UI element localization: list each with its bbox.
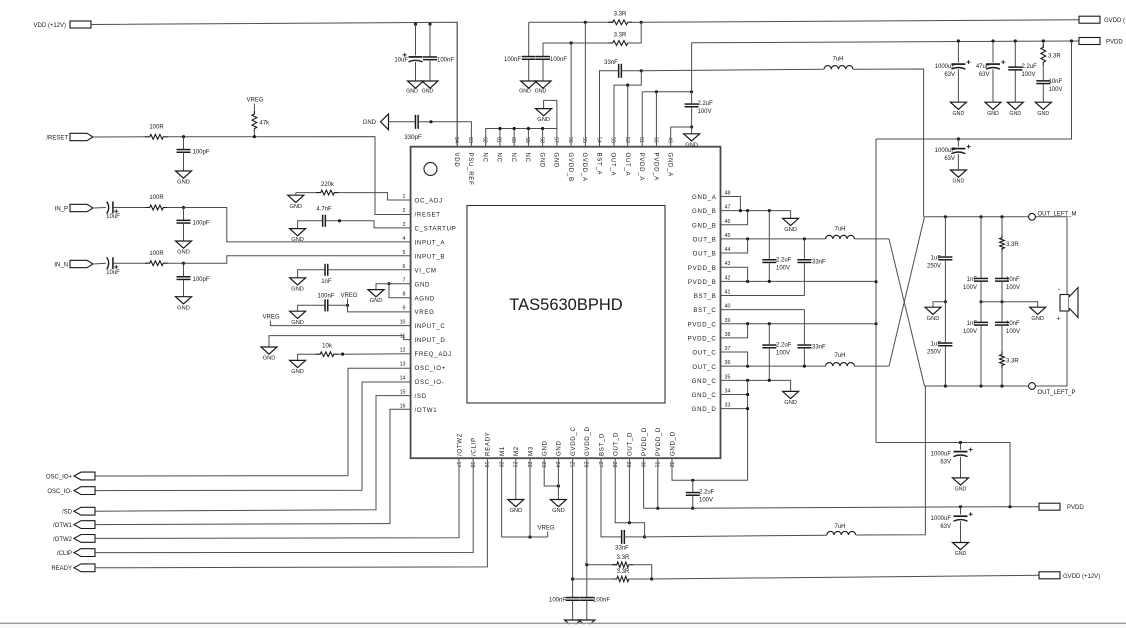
svg-text:+: + <box>1056 316 1060 323</box>
svg-text:20: 20 <box>497 462 503 468</box>
svg-text:GND_C: GND_C <box>692 392 717 399</box>
svg-text:GND_D: GND_D <box>669 431 676 456</box>
svg-text:/CLIP: /CLIP <box>57 551 72 557</box>
svg-text:10nF: 10nF <box>1006 321 1020 327</box>
svg-text:3.3R: 3.3R <box>1048 54 1061 60</box>
svg-text:100nF: 100nF <box>317 294 334 300</box>
svg-text:100V: 100V <box>963 329 977 335</box>
svg-text:47uF: 47uF <box>976 64 990 70</box>
svg-text:10uF: 10uF <box>394 58 408 64</box>
svg-text:C_STARTUP: C_STARTUP <box>415 226 457 233</box>
svg-text:PVDD_C: PVDD_C <box>688 336 717 343</box>
svg-text:VREG: VREG <box>246 98 263 104</box>
svg-text:GVDD_D: GVDD_D <box>584 426 591 456</box>
svg-text:GVDD (+12V): GVDD (+12V) <box>1104 18 1126 24</box>
svg-text:BST_D: BST_D <box>598 433 605 456</box>
svg-text:/OTW2: /OTW2 <box>53 537 73 543</box>
svg-text:60: 60 <box>510 137 516 143</box>
svg-text:100V: 100V <box>1006 329 1020 335</box>
svg-text:/SD: /SD <box>415 393 427 400</box>
svg-text:13: 13 <box>400 361 406 367</box>
svg-text:PVDD_A: PVDD_A <box>652 153 659 182</box>
svg-text:100nF: 100nF <box>504 57 521 63</box>
svg-text:GND: GND <box>556 440 563 456</box>
svg-text:44: 44 <box>725 247 731 253</box>
svg-text:100pF: 100pF <box>193 277 210 283</box>
svg-text:22: 22 <box>526 462 532 468</box>
svg-text:/CLIP: /CLIP <box>471 437 478 456</box>
svg-text:100R: 100R <box>149 125 164 131</box>
svg-text:100pF: 100pF <box>193 221 210 227</box>
svg-text:32: 32 <box>668 462 674 468</box>
svg-text:/RESET: /RESET <box>46 136 68 142</box>
svg-text:PVDD_C: PVDD_C <box>688 321 717 328</box>
svg-text:33nF: 33nF <box>812 260 826 266</box>
svg-text:100nF: 100nF <box>550 57 567 63</box>
svg-text:IN_P: IN_P <box>55 207 68 213</box>
svg-text:100R: 100R <box>149 195 164 201</box>
svg-text:56: 56 <box>567 137 573 143</box>
svg-text:220k: 220k <box>321 182 335 188</box>
svg-text:7uH: 7uH <box>834 353 845 359</box>
svg-text:OUT_C: OUT_C <box>692 350 716 357</box>
svg-text:16: 16 <box>400 403 406 409</box>
svg-text:10nF: 10nF <box>1049 79 1063 85</box>
svg-text:55: 55 <box>581 137 587 143</box>
svg-text:VREG: VREG <box>262 314 279 320</box>
svg-text:/RESET: /RESET <box>415 212 441 219</box>
svg-text:10k: 10k <box>322 344 333 350</box>
svg-text:14: 14 <box>400 375 406 381</box>
svg-text:3.3R: 3.3R <box>614 12 627 18</box>
svg-text:63V: 63V <box>940 460 951 466</box>
svg-text:/OTW2: /OTW2 <box>456 433 463 456</box>
svg-text:OSC_IO-: OSC_IO- <box>47 489 72 495</box>
svg-text:50: 50 <box>652 137 658 143</box>
svg-text:GND: GND <box>953 111 965 117</box>
svg-text:PVDD: PVDD <box>1067 505 1084 511</box>
svg-text:29: 29 <box>625 462 631 468</box>
svg-text:GND: GND <box>289 204 302 210</box>
svg-text:100V: 100V <box>699 498 713 504</box>
svg-text:28: 28 <box>611 462 617 468</box>
svg-text:100V: 100V <box>1022 72 1036 78</box>
svg-text:OUT_B: OUT_B <box>693 237 717 244</box>
svg-text:GND: GND <box>291 237 304 243</box>
svg-text:31: 31 <box>654 462 660 468</box>
svg-text:GND: GND <box>953 179 965 185</box>
svg-text:OUT_C: OUT_C <box>692 364 716 371</box>
svg-text:100nF: 100nF <box>437 58 454 64</box>
svg-text:FREQ_ADJ: FREQ_ADJ <box>415 351 452 358</box>
svg-text:33nF: 33nF <box>615 546 629 552</box>
svg-text:GND: GND <box>537 117 550 123</box>
svg-text:GND: GND <box>291 320 304 326</box>
svg-text:3.3R: 3.3R <box>617 555 630 561</box>
svg-text:18: 18 <box>469 462 475 468</box>
svg-text:10uF: 10uF <box>106 214 120 220</box>
svg-text:250V: 250V <box>927 350 941 356</box>
svg-text:3.3R: 3.3R <box>1006 242 1019 248</box>
svg-text:45: 45 <box>725 233 731 239</box>
svg-text:52: 52 <box>624 137 630 143</box>
svg-text:47: 47 <box>725 205 731 211</box>
svg-text:/OTW1: /OTW1 <box>415 407 438 414</box>
svg-text:46: 46 <box>725 219 731 225</box>
svg-text:2.2uF: 2.2uF <box>1022 64 1038 70</box>
svg-text:/SD: /SD <box>62 510 73 516</box>
svg-text:33: 33 <box>725 403 731 409</box>
svg-text:7uH: 7uH <box>834 227 845 233</box>
svg-text:GVDD_A: GVDD_A <box>581 153 588 182</box>
svg-text:100V: 100V <box>963 285 977 291</box>
svg-text:5: 5 <box>403 250 406 256</box>
svg-text:GND: GND <box>291 286 304 292</box>
svg-text:OUT_LEFT_M: OUT_LEFT_M <box>1038 212 1077 218</box>
svg-text:40: 40 <box>725 304 731 310</box>
svg-text:27: 27 <box>597 462 603 468</box>
svg-text:PSU_REF: PSU_REF <box>467 153 474 186</box>
svg-text:INPUT_C: INPUT_C <box>415 323 446 330</box>
svg-text:250V: 250V <box>927 264 941 270</box>
svg-text:24: 24 <box>554 462 560 468</box>
svg-text:33nF: 33nF <box>812 345 826 351</box>
svg-text:GND: GND <box>784 227 797 233</box>
svg-text:GND: GND <box>535 89 547 95</box>
svg-text:GVDD (+12V): GVDD (+12V) <box>1063 574 1100 580</box>
svg-text:57: 57 <box>553 137 559 143</box>
svg-text:OUT_A: OUT_A <box>610 153 617 177</box>
svg-text:59: 59 <box>524 137 530 143</box>
svg-text:GVDD_B: GVDD_B <box>567 153 574 182</box>
svg-text:100V: 100V <box>776 266 790 272</box>
svg-text:1nF: 1nF <box>967 321 978 327</box>
svg-text:10nF: 10nF <box>1006 277 1020 283</box>
svg-text:2.2uF: 2.2uF <box>776 258 792 264</box>
svg-text:41: 41 <box>725 289 731 295</box>
svg-text:OC_ADJ: OC_ADJ <box>415 198 443 205</box>
svg-text:OUT_D: OUT_D <box>613 432 620 456</box>
svg-text:4.7nF: 4.7nF <box>316 207 332 213</box>
svg-text:100pF: 100pF <box>193 150 210 156</box>
svg-text:1000uF: 1000uF <box>931 452 952 458</box>
svg-text:7: 7 <box>403 278 406 284</box>
svg-text:GND: GND <box>553 153 560 169</box>
svg-text:10: 10 <box>400 320 406 326</box>
svg-text:1uF: 1uF <box>931 256 942 262</box>
svg-text:/OTW1: /OTW1 <box>53 523 73 529</box>
svg-text:GND: GND <box>784 400 797 406</box>
svg-text:READY: READY <box>51 566 72 572</box>
svg-text:GND: GND <box>519 89 531 95</box>
svg-text:AGND: AGND <box>415 295 435 302</box>
svg-text:100V: 100V <box>1049 87 1063 93</box>
svg-text:38: 38 <box>725 332 731 338</box>
svg-text:12: 12 <box>400 347 406 353</box>
svg-text:PVDD: PVDD <box>1106 40 1123 46</box>
svg-text:43: 43 <box>725 261 731 267</box>
svg-text:39: 39 <box>725 318 731 324</box>
svg-text:3.3R: 3.3R <box>614 33 627 39</box>
svg-text:1000uF: 1000uF <box>935 64 956 70</box>
svg-text:1nF: 1nF <box>321 279 332 285</box>
svg-text:VREG: VREG <box>537 526 554 532</box>
svg-text:GND: GND <box>415 281 431 288</box>
svg-text:GND_C: GND_C <box>692 378 717 385</box>
svg-text:47k: 47k <box>260 121 271 127</box>
svg-text:INPUT_A: INPUT_A <box>415 239 446 246</box>
svg-text:100V: 100V <box>1006 285 1020 291</box>
svg-text:VREG: VREG <box>415 309 435 316</box>
svg-text:100V: 100V <box>776 351 790 357</box>
svg-text:8: 8 <box>403 292 406 298</box>
svg-text:M1: M1 <box>499 446 506 456</box>
svg-text:17: 17 <box>455 462 461 468</box>
svg-text:GND: GND <box>552 508 565 514</box>
svg-text:100nF: 100nF <box>549 598 566 604</box>
svg-text:2.2uF: 2.2uF <box>698 101 714 107</box>
svg-text:GND: GND <box>509 508 522 514</box>
svg-text:2: 2 <box>403 208 406 214</box>
svg-text:GND_D: GND_D <box>692 406 717 413</box>
svg-text:58: 58 <box>538 137 544 143</box>
svg-text:100R: 100R <box>149 251 164 257</box>
svg-text:OSC_IO+: OSC_IO+ <box>415 365 447 372</box>
svg-text:GND: GND <box>177 250 190 256</box>
svg-text:VREG: VREG <box>340 293 357 299</box>
svg-text:53: 53 <box>610 137 616 143</box>
svg-text:42: 42 <box>725 275 731 281</box>
svg-text:NC: NC <box>524 153 531 163</box>
svg-text:GND_B: GND_B <box>692 222 717 229</box>
svg-text:OUT_A: OUT_A <box>624 153 631 177</box>
svg-text:19: 19 <box>483 462 489 468</box>
svg-text:51: 51 <box>638 137 644 143</box>
svg-text:63V: 63V <box>944 72 955 78</box>
svg-text:GND: GND <box>263 356 276 362</box>
svg-text:PVDD_B: PVDD_B <box>688 279 717 286</box>
svg-text:3.3R: 3.3R <box>1006 359 1019 365</box>
svg-text:READY: READY <box>485 432 492 457</box>
svg-text:30: 30 <box>639 462 645 468</box>
svg-text:62: 62 <box>481 137 487 143</box>
svg-text:1: 1 <box>403 194 406 200</box>
svg-text:M3: M3 <box>527 446 534 456</box>
svg-text:34: 34 <box>725 388 731 394</box>
svg-text:GND: GND <box>685 142 698 148</box>
svg-text:330pF: 330pF <box>404 134 422 141</box>
svg-text:21: 21 <box>512 462 518 468</box>
svg-text:49: 49 <box>667 137 673 143</box>
svg-text:VDD: VDD <box>453 153 460 168</box>
svg-text:48: 48 <box>725 191 731 197</box>
svg-text:BST_A: BST_A <box>595 153 602 176</box>
svg-text:1000uF: 1000uF <box>935 148 956 154</box>
svg-text:OSC_IO-: OSC_IO- <box>415 379 445 386</box>
svg-text:GND: GND <box>291 369 304 375</box>
svg-text:7uH: 7uH <box>832 57 843 63</box>
svg-text:GND_A: GND_A <box>692 194 717 201</box>
svg-text:15: 15 <box>400 389 406 395</box>
svg-text:PVDD_D: PVDD_D <box>655 427 662 456</box>
svg-text:NC: NC <box>496 153 503 163</box>
svg-text:BST_B: BST_B <box>694 293 717 300</box>
svg-text:1nF: 1nF <box>967 277 978 283</box>
svg-text:INPUT_B: INPUT_B <box>415 253 446 260</box>
svg-text:7uH: 7uH <box>834 524 845 530</box>
svg-text:OUT_D: OUT_D <box>627 432 634 456</box>
svg-text:VI_CM: VI_CM <box>415 267 437 274</box>
svg-text:GND: GND <box>406 89 418 95</box>
svg-text:2.2uF: 2.2uF <box>776 343 792 349</box>
svg-text:OUT_B: OUT_B <box>693 251 717 258</box>
svg-text:GND: GND <box>1037 111 1049 117</box>
svg-text:IN_N: IN_N <box>54 263 68 269</box>
svg-text:64: 64 <box>453 137 459 143</box>
svg-text:GND: GND <box>177 180 190 186</box>
svg-text:M2: M2 <box>513 446 520 456</box>
svg-text:PVDD_B: PVDD_B <box>688 265 717 272</box>
svg-text:3: 3 <box>403 222 406 228</box>
svg-text:GND: GND <box>542 440 549 456</box>
svg-text:OUT_LEFT_P: OUT_LEFT_P <box>1038 390 1076 396</box>
svg-text:54: 54 <box>595 137 601 143</box>
svg-text:PVDD_A: PVDD_A <box>638 153 645 182</box>
svg-text:63: 63 <box>467 137 473 143</box>
svg-text:GND: GND <box>987 111 999 117</box>
svg-text:63V: 63V <box>940 524 951 530</box>
svg-text:61: 61 <box>496 137 502 143</box>
svg-text:25: 25 <box>568 462 574 468</box>
svg-text:100nF: 100nF <box>593 598 610 604</box>
svg-text:35: 35 <box>725 374 731 380</box>
svg-text:1000uF: 1000uF <box>931 516 952 522</box>
svg-text:GND: GND <box>927 316 940 322</box>
svg-text:OSC_IO+: OSC_IO+ <box>46 474 73 480</box>
svg-text:NC: NC <box>481 153 488 163</box>
svg-text:63V: 63V <box>944 156 955 162</box>
svg-text:36: 36 <box>725 360 731 366</box>
svg-text:GND: GND <box>422 89 434 95</box>
svg-text:6: 6 <box>403 264 406 270</box>
svg-text:2.2uF: 2.2uF <box>699 490 715 496</box>
svg-text:GND: GND <box>1031 316 1044 322</box>
svg-text:3.3R: 3.3R <box>617 569 630 575</box>
svg-text:37: 37 <box>725 346 731 352</box>
svg-text:GVDD_C: GVDD_C <box>570 426 577 456</box>
svg-text:63V: 63V <box>979 72 990 78</box>
svg-text:9: 9 <box>403 306 406 312</box>
svg-text:33nF: 33nF <box>604 60 618 66</box>
svg-text:GND: GND <box>370 298 383 304</box>
svg-text:1uF: 1uF <box>931 342 942 348</box>
svg-text:GND: GND <box>1009 111 1021 117</box>
svg-text:11: 11 <box>400 334 406 340</box>
svg-text:BST_C: BST_C <box>693 307 716 314</box>
svg-text:23: 23 <box>540 462 546 468</box>
svg-text:GND: GND <box>538 153 545 169</box>
svg-text:VDD (+12V): VDD (+12V) <box>33 23 66 29</box>
svg-text:GND: GND <box>955 486 967 492</box>
svg-text:GND_B: GND_B <box>692 208 717 215</box>
svg-text:NC: NC <box>510 153 517 163</box>
svg-text:26: 26 <box>583 462 589 468</box>
svg-text:10uF: 10uF <box>106 270 120 276</box>
svg-text:PVDD_D: PVDD_D <box>641 427 648 456</box>
svg-text:GND: GND <box>955 551 967 557</box>
svg-text:INPUT_D: INPUT_D <box>415 337 446 344</box>
svg-text:GND: GND <box>177 305 190 311</box>
svg-text:4: 4 <box>403 236 406 242</box>
svg-text:GND: GND <box>363 120 377 126</box>
svg-text:GND_A: GND_A <box>667 153 674 178</box>
svg-text:100V: 100V <box>698 109 712 115</box>
svg-text:TAS5630BPHD: TAS5630BPHD <box>509 296 622 314</box>
